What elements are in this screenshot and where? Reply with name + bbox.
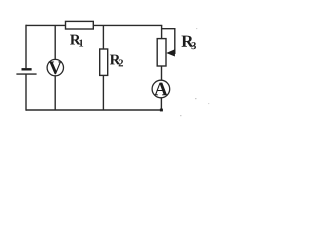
wire top horizontal (26, 24, 162, 26)
wire R3 to ammeter (161, 66, 163, 80)
battery cell short plate (22, 68, 32, 70)
scan speck (195, 98, 197, 99)
scan speck (208, 103, 209, 104)
wire R3 drop from top wire (161, 25, 163, 38)
wire left vertical lower (25, 74, 27, 111)
label R1 (70, 35, 81, 45)
wire R2 branch lower (102, 75, 104, 110)
wire voltmeter branch lower (54, 76, 56, 110)
wire left vertical upper (25, 25, 27, 69)
battery cell long plate (16, 73, 36, 75)
scan speck (180, 115, 182, 116)
resistor R1 (66, 21, 94, 29)
voltmeter V (47, 59, 63, 75)
wire R3 wiper branch (162, 29, 175, 54)
ammeter A (152, 80, 170, 98)
label R2 (110, 55, 121, 65)
wire voltmeter branch upper (54, 25, 56, 59)
scan speck (196, 28, 197, 29)
wiper arrow of R3 (166, 49, 175, 56)
resistor R2 (100, 49, 108, 75)
resistor R3 (157, 39, 166, 66)
wire ammeter to bottom (160, 98, 162, 110)
wire R2 branch upper (102, 25, 104, 49)
label R3 (181, 36, 193, 47)
junction dot bottom right (160, 109, 163, 112)
wire bottom horizontal (26, 109, 161, 111)
